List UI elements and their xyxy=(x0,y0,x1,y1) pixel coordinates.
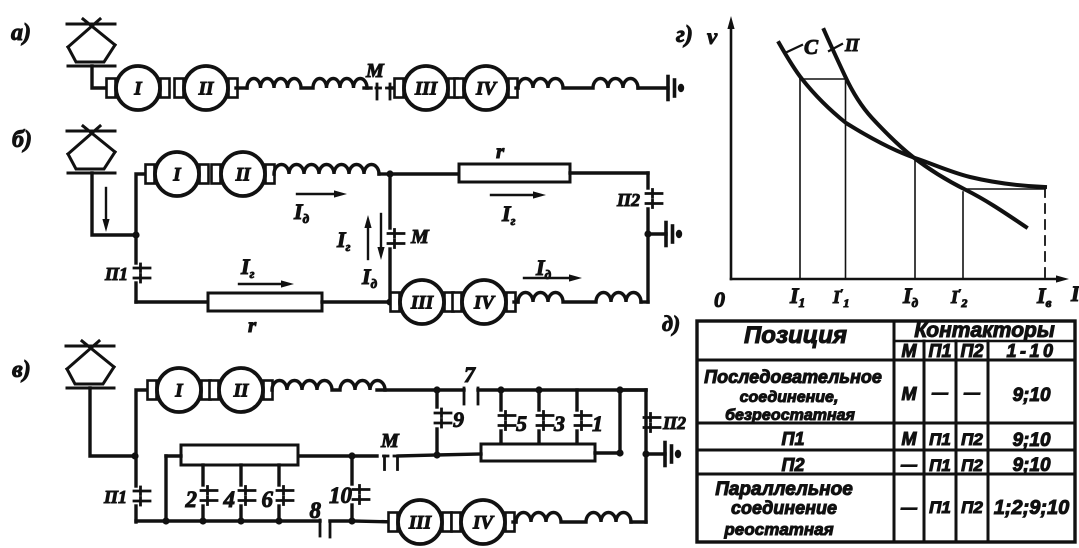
svg-text:r: r xyxy=(248,313,257,337)
svg-text:П2: П2 xyxy=(961,456,983,475)
svg-text:0: 0 xyxy=(714,287,725,312)
svg-text:М: М xyxy=(902,429,918,449)
svg-text:Позиция: Позиция xyxy=(744,322,847,349)
svg-text:П1: П1 xyxy=(782,429,805,449)
svg-text:реостатная: реостатная xyxy=(723,520,833,539)
svg-text:П1: П1 xyxy=(929,498,951,517)
svg-text:—: — xyxy=(963,385,981,402)
svg-text:II: II xyxy=(235,165,251,186)
svg-text:М: М xyxy=(380,430,400,452)
svg-text:I: I xyxy=(1070,281,1079,306)
svg-text:П2: П2 xyxy=(616,190,640,210)
svg-text:б): б) xyxy=(12,127,32,153)
svg-text:П2: П2 xyxy=(961,430,983,449)
svg-text:—: — xyxy=(900,500,918,517)
svg-text:—: — xyxy=(900,457,918,474)
svg-text:6: 6 xyxy=(262,487,274,512)
svg-text:П1: П1 xyxy=(929,456,951,475)
svg-text:безреостатная: безреостатная xyxy=(725,407,855,424)
svg-text:4: 4 xyxy=(223,487,236,512)
svg-text:9;10: 9;10 xyxy=(1012,455,1050,476)
svg-text:П2: П2 xyxy=(782,455,805,475)
svg-text:v: v xyxy=(707,24,718,49)
svg-text:С: С xyxy=(804,35,819,59)
svg-text:соединение,: соединение, xyxy=(740,389,839,406)
svg-text:8: 8 xyxy=(310,498,322,523)
svg-text:М: М xyxy=(902,341,918,361)
svg-text:2: 2 xyxy=(185,487,198,512)
svg-text:в): в) xyxy=(12,357,31,383)
svg-text:I: I xyxy=(174,381,183,402)
svg-text:П2: П2 xyxy=(961,498,983,517)
svg-text:П1: П1 xyxy=(929,430,951,449)
svg-text:М: М xyxy=(365,60,385,82)
svg-text:I: I xyxy=(133,79,142,100)
svg-text:д): д) xyxy=(662,311,680,336)
svg-text:М: М xyxy=(902,384,918,404)
svg-text:II: II xyxy=(198,79,214,100)
svg-text:П1: П1 xyxy=(104,264,128,284)
svg-text:Контакторы: Контакторы xyxy=(914,319,1055,342)
svg-text:П2: П2 xyxy=(662,413,686,433)
svg-text:I: I xyxy=(172,165,181,186)
svg-text:10: 10 xyxy=(329,483,353,508)
svg-text:9;10: 9;10 xyxy=(1012,430,1050,451)
svg-text:1;2;9;10: 1;2;9;10 xyxy=(994,497,1070,519)
svg-text:П2: П2 xyxy=(961,341,984,361)
svg-text:III: III xyxy=(408,513,432,534)
svg-text:П1: П1 xyxy=(929,341,952,361)
svg-text:П1: П1 xyxy=(103,487,127,507)
svg-text:II: II xyxy=(233,381,249,402)
svg-text:5: 5 xyxy=(516,411,527,436)
svg-text:r: r xyxy=(496,139,505,163)
svg-text:9: 9 xyxy=(453,407,464,432)
svg-text:1: 1 xyxy=(592,411,603,436)
svg-text:г): г) xyxy=(676,22,693,48)
svg-text:9;10: 9;10 xyxy=(1012,385,1050,406)
svg-text:IV: IV xyxy=(475,79,497,100)
svg-text:Последовательное: Последовательное xyxy=(704,367,882,387)
svg-text:М: М xyxy=(410,226,430,248)
svg-text:—: — xyxy=(931,385,949,402)
svg-text:П: П xyxy=(844,35,860,55)
svg-text:а): а) xyxy=(11,20,31,46)
svg-text:1-10: 1-10 xyxy=(1006,341,1056,361)
svg-text:соединение: соединение xyxy=(731,498,837,518)
svg-text:III: III xyxy=(414,79,438,100)
svg-text:Параллельное: Параллельное xyxy=(715,479,853,500)
svg-text:IV: IV xyxy=(472,513,494,534)
svg-text:7: 7 xyxy=(464,362,476,387)
svg-text:III: III xyxy=(410,293,434,314)
svg-text:IV: IV xyxy=(473,293,495,314)
svg-text:3: 3 xyxy=(553,411,565,436)
